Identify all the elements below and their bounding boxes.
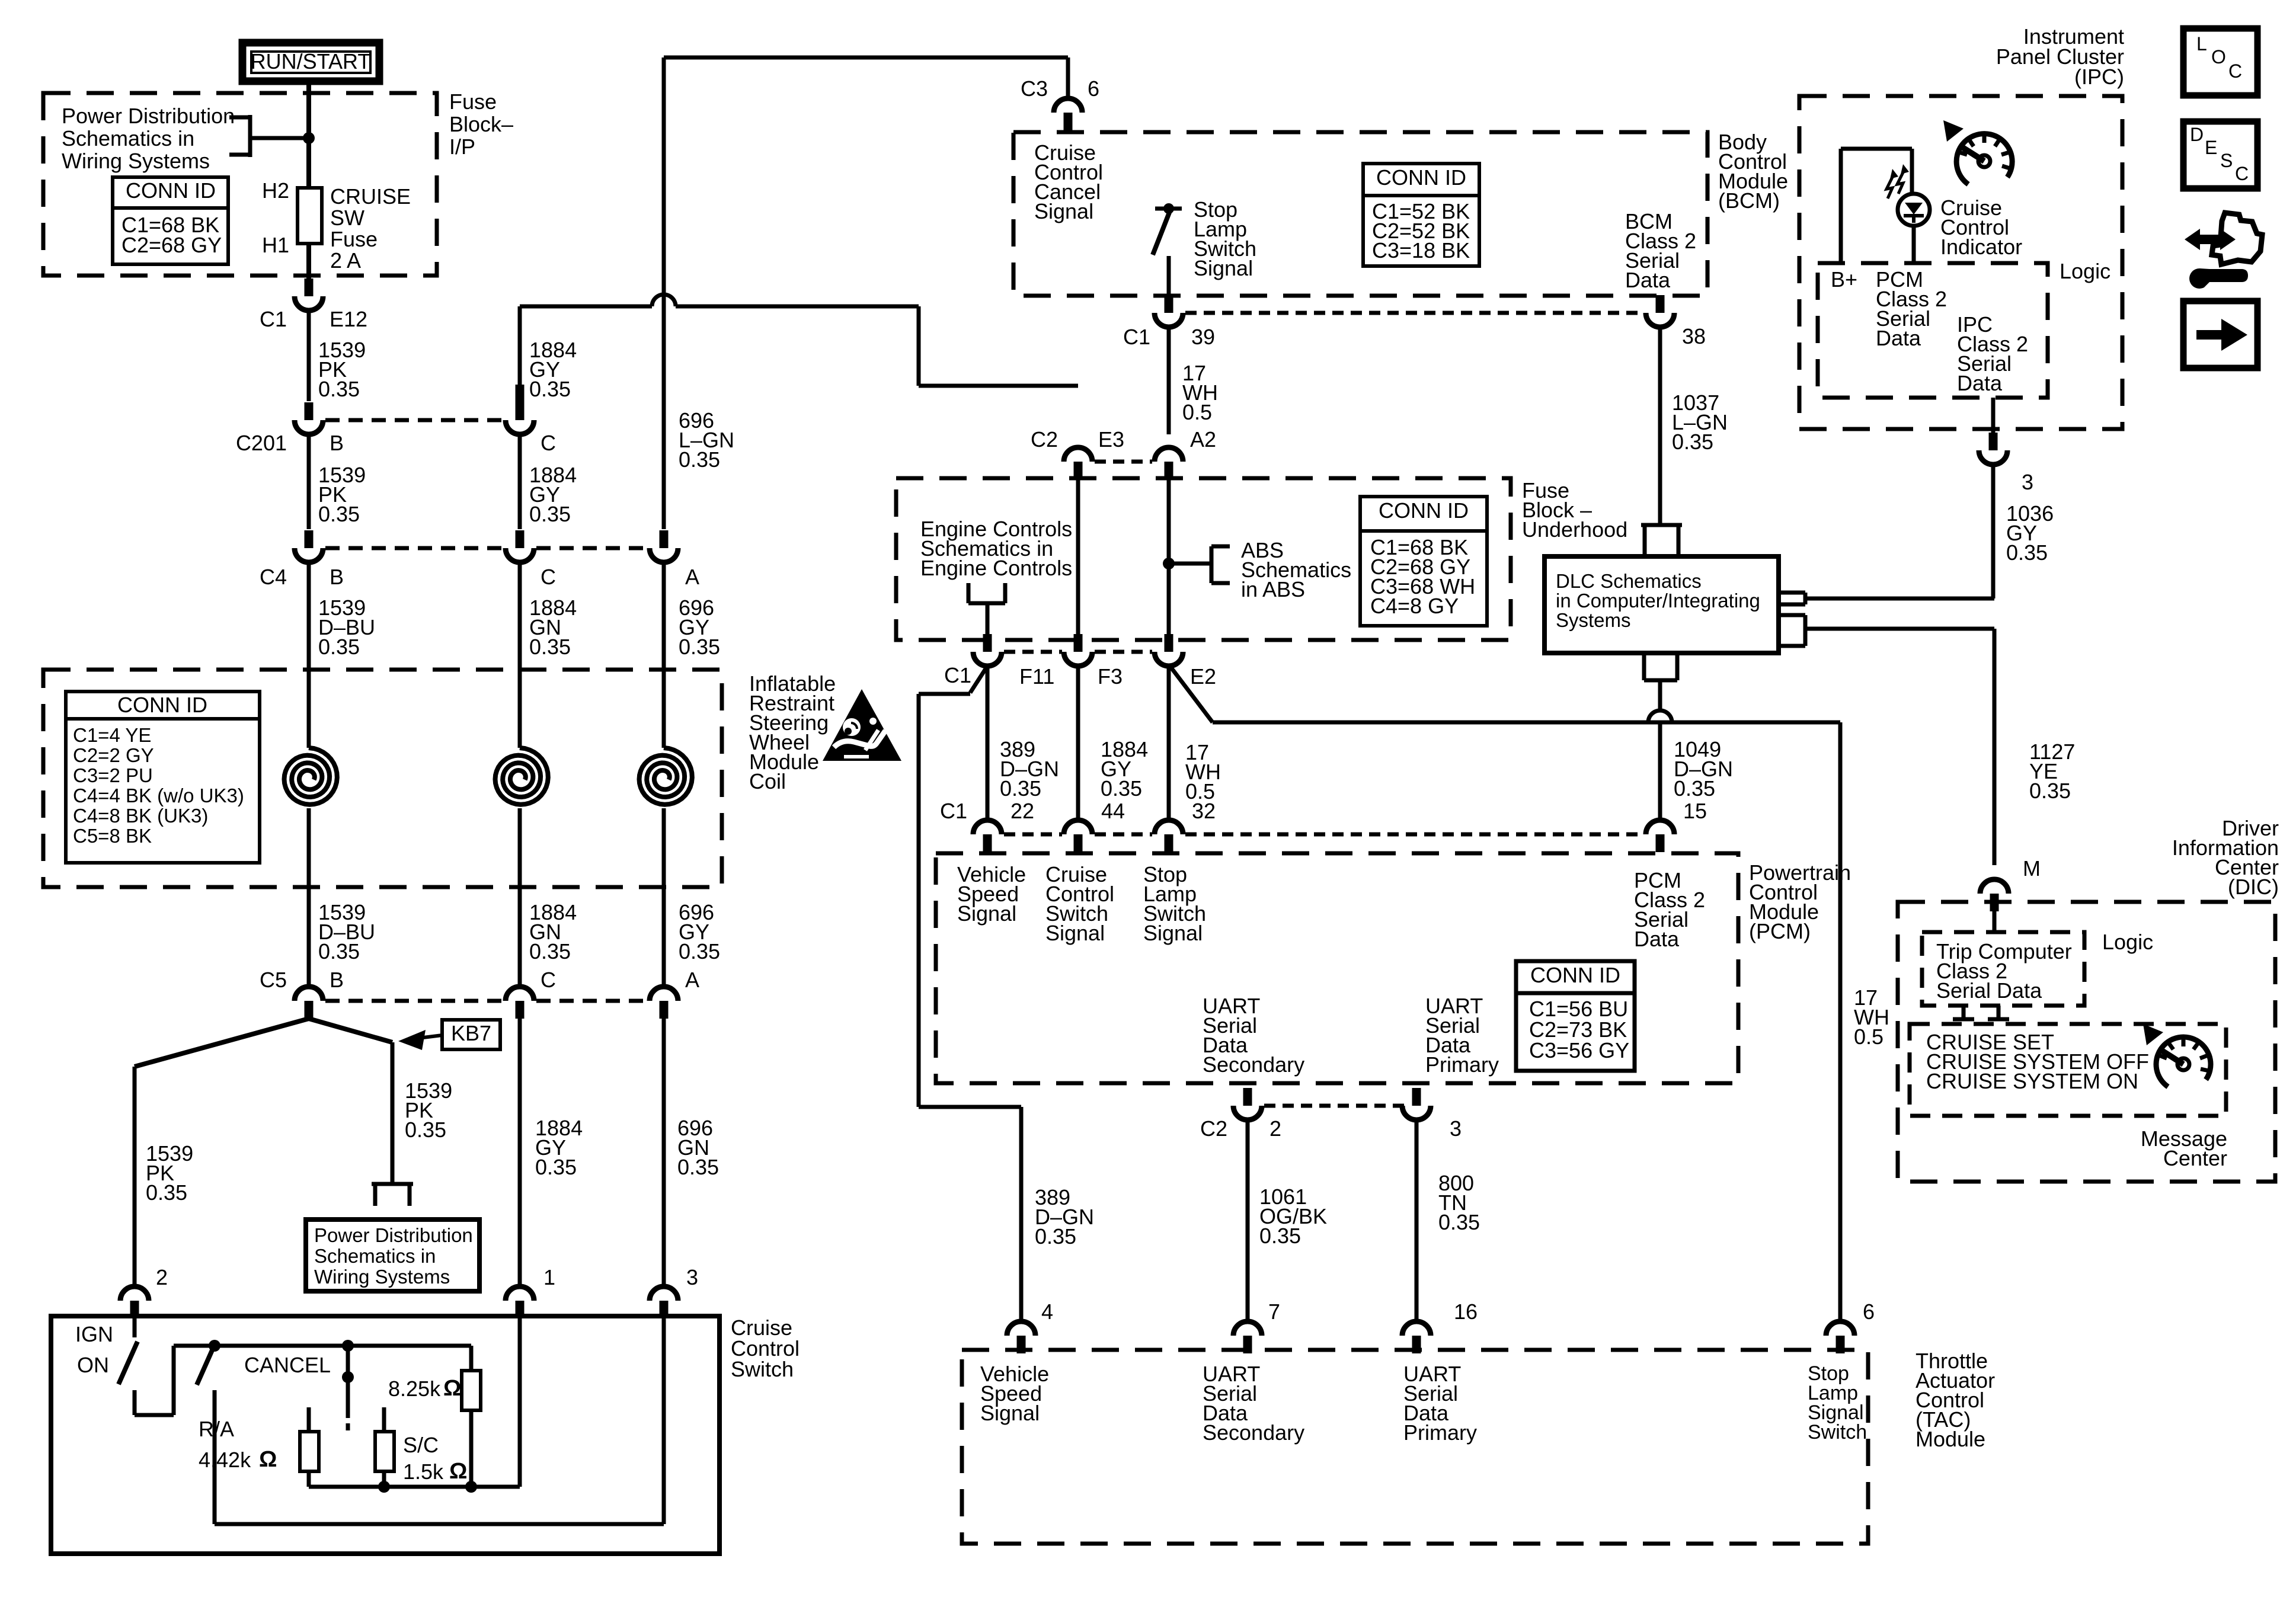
resistor 8.25k [462, 1346, 481, 1487]
wire 1884 GY C201-C to C4-C [518, 434, 522, 529]
label UART Serial Data Primary (PCM) [1425, 994, 1499, 1077]
KB7 splice callout [398, 1020, 500, 1050]
svg-text:32: 32 [1192, 799, 1216, 823]
label 800 TN 0.35 [1438, 1171, 1480, 1234]
svg-text:0.35: 0.35 [677, 1155, 719, 1179]
svg-text:2: 2 [156, 1265, 168, 1289]
svg-text:IGN: IGN [75, 1322, 113, 1346]
wire 17 WH E2 to 32 [1167, 666, 1171, 820]
svg-text:22: 22 [1011, 799, 1034, 823]
svg-text:0.35: 0.35 [679, 447, 720, 472]
svg-text:C3=56 GY: C3=56 GY [1529, 1038, 1629, 1062]
resistor R/A 4.42k [300, 1407, 319, 1487]
connector F3 [1064, 634, 1092, 666]
svg-text:CRUISE: CRUISE [330, 184, 411, 209]
power source RUN/START [242, 43, 379, 81]
wire B+ feed to LED [1841, 149, 1912, 263]
svg-text:H2: H2 [262, 178, 289, 203]
label 1884 GY 0.35 (mid) [1101, 737, 1148, 801]
label 1127 YE 0.35 [2029, 740, 2075, 803]
svg-text:4.42k: 4.42k [199, 1448, 251, 1472]
svg-text:15: 15 [1683, 799, 1707, 823]
bracket ABS [1211, 546, 1230, 583]
connector row C5 dashed [325, 999, 647, 1003]
rail top resistors [215, 1344, 471, 1348]
label PCM Class 2 Serial Data (IPC) [1876, 267, 1947, 350]
svg-text:0.35: 0.35 [2006, 540, 2048, 565]
svg-text:Center: Center [2163, 1146, 2227, 1170]
svg-text:0.35: 0.35 [1674, 776, 1715, 801]
bus taps trip computer [1953, 1006, 2009, 1019]
svg-text:CONN ID: CONN ID [1376, 165, 1466, 190]
node set/coast branch [342, 1340, 354, 1352]
svg-text:C2: C2 [1031, 427, 1058, 452]
label Stop Lamp Signal Switch (TAC) [1808, 1362, 1867, 1443]
label 389 D-GN 0.35 [1000, 737, 1059, 801]
svg-text:I/P: I/P [449, 135, 475, 159]
wire 696 GY coil to C5 [662, 808, 666, 986]
wire split below C5 left diagonal [135, 1019, 309, 1067]
connector C1 pin E12 [295, 279, 323, 311]
label BCM Class 2 Serial Data [1625, 209, 1696, 292]
svg-text:0.35: 0.35 [1672, 430, 1713, 454]
svg-text:Signal: Signal [1045, 921, 1105, 945]
svg-text:Ω: Ω [443, 1376, 461, 1401]
connector C5 pin B [295, 987, 323, 1019]
CONN ID table (coil) [66, 692, 260, 863]
svg-text:C5: C5 [260, 968, 287, 992]
label CRUISE SW Fuse 2A [330, 184, 411, 273]
svg-text:E3: E3 [1098, 427, 1124, 452]
CONN ID table (PCM) [1516, 961, 1635, 1071]
Cruise Control Switch box [51, 1316, 720, 1554]
wire IGN switch to cancel rail [135, 1346, 215, 1415]
wire 1036 GY [1991, 465, 1996, 598]
wire F11 diagonal to vehicle speed run [919, 666, 987, 1107]
label S/C 1.5k ohm [403, 1433, 467, 1484]
svg-text:Indicator: Indicator [1940, 235, 2022, 259]
svg-text:0.5: 0.5 [1854, 1025, 1884, 1049]
icon engine service [2185, 213, 2262, 289]
wire ABS tap [1169, 562, 1211, 566]
switch set/coast contact [342, 1346, 354, 1430]
Fuse Block I/P dashed box [43, 93, 437, 276]
svg-text:Logic: Logic [2060, 259, 2110, 283]
svg-text:KB7: KB7 [451, 1021, 491, 1045]
connector pin 4 TAC [1007, 1321, 1035, 1353]
wire fuse to connector C1 [306, 244, 311, 279]
connector row dotted 39 to 38 [1185, 311, 1643, 315]
connector pin 16 TAC [1402, 1321, 1431, 1353]
connector pin 32 [1155, 820, 1183, 852]
svg-text:C201: C201 [236, 431, 287, 455]
svg-text:Wiring Systems: Wiring Systems [62, 149, 210, 173]
svg-text:C1: C1 [944, 663, 971, 687]
wire E2 diagonal to stop lamp run [1170, 666, 1840, 722]
switch CANCEL blade [197, 1342, 216, 1385]
connector row dotted E3-A2 [1095, 460, 1152, 464]
svg-text:CONN ID: CONN ID [117, 693, 207, 717]
svg-text:3: 3 [2022, 470, 2033, 494]
svg-text:Underhood: Underhood [1522, 517, 1627, 542]
svg-text:Module: Module [1916, 1427, 1985, 1451]
node ABS tap [1163, 558, 1175, 569]
label 389 D-GN 0.35 (bottom) [1035, 1185, 1094, 1249]
connector pin 7 TAC [1233, 1321, 1262, 1353]
svg-text:Logic: Logic [2102, 930, 2153, 954]
svg-text:0.35: 0.35 [318, 377, 360, 401]
label 696 GY 0.35 (2) [679, 900, 720, 964]
node cancel branch [209, 1340, 220, 1352]
svg-text:Serial Data: Serial Data [1936, 978, 2042, 1003]
label 8.25k ohm [388, 1376, 461, 1401]
svg-text:6: 6 [1088, 76, 1099, 101]
Inflatable Restraint Steering Wheel Module Coil dashed box [43, 670, 722, 887]
wire 1539 PK 0.35 C1 to C201 [307, 311, 311, 401]
svg-text:7: 7 [1268, 1299, 1280, 1324]
label Stop Lamp Switch Signal [1194, 197, 1256, 280]
svg-text:Fuse: Fuse [330, 227, 378, 251]
bracket engine controls [968, 583, 1005, 640]
svg-text:A: A [685, 968, 699, 992]
svg-text:S/C: S/C [403, 1433, 439, 1457]
connector 3 IPC [1979, 433, 2007, 465]
label 1036 GY 0.35 [2006, 501, 2054, 565]
svg-text:CONN ID: CONN ID [126, 178, 216, 203]
svg-text:Schematics in: Schematics in [62, 126, 194, 151]
svg-text:C3: C3 [1021, 76, 1048, 101]
hop of GY wire over L-GN wire [520, 295, 1078, 386]
label Stop Lamp Switch Signal (PCM) [1143, 862, 1206, 945]
label 1884 GY 0.35 (to pin1) [535, 1116, 583, 1179]
label 696 GY 0.35 [679, 596, 720, 659]
wire vehicle speed jog to pin 4 [919, 1107, 1021, 1323]
coil L3 (SIR coil A) [639, 748, 692, 805]
label 1049 D-GN 0.35 [1674, 737, 1733, 801]
label Cruise Control Indicator [1940, 196, 2022, 259]
wire 1049 D-GN DLC to PCM 15 [1648, 680, 1672, 820]
icon arrow [2183, 301, 2257, 368]
svg-text:C2=2 GY: C2=2 GY [73, 744, 154, 766]
connector C3 pin 6 [1054, 98, 1082, 130]
wire E3 to F3 [1076, 479, 1080, 640]
bracket 1037 to DLC box [1641, 525, 1682, 555]
svg-text:Secondary: Secondary [1203, 1052, 1304, 1077]
svg-text:Engine Controls: Engine Controls [920, 556, 1072, 580]
svg-text:B: B [330, 968, 344, 992]
svg-text:1: 1 [543, 1265, 555, 1289]
connector E2 [1155, 634, 1183, 666]
off-page bracket to power distribution [372, 1184, 413, 1206]
svg-text:C: C [2228, 60, 2242, 82]
label Inflatable Restraint Steering Wheel Module Coil [749, 671, 836, 793]
svg-text:Ω: Ω [449, 1459, 467, 1484]
wire 1037 L-GN BCM to DLC [1658, 327, 1662, 525]
svg-text:8.25k: 8.25k [388, 1377, 441, 1401]
connector C201 pin C [506, 402, 534, 434]
switch stop lamp (in BCM) [1153, 203, 1182, 302]
svg-text:E2: E2 [1190, 664, 1216, 689]
svg-text:B: B [330, 565, 344, 589]
svg-text:S: S [2220, 150, 2233, 171]
label Fuse Block-I/P [449, 89, 513, 159]
svg-text:Signal: Signal [1034, 199, 1093, 223]
svg-text:C4=4 BK (w/o UK3): C4=4 BK (w/o UK3) [73, 785, 244, 806]
svg-text:Data: Data [1625, 268, 1671, 292]
wire 1036 GY horizontal to DLC [1805, 597, 1994, 601]
connector row dotted 22-44 [1004, 833, 1062, 837]
connector row C201 dashed [325, 418, 503, 422]
svg-text:F3: F3 [1098, 664, 1123, 689]
svg-text:Data: Data [1634, 927, 1680, 951]
svg-text:(BCM): (BCM) [1718, 188, 1780, 213]
svg-text:B: B [330, 431, 344, 455]
warning triangle SIR [823, 689, 901, 761]
wire 17 WH to TAC pin 6 [1838, 722, 1843, 1321]
svg-text:C3=18 BK: C3=18 BK [1372, 238, 1470, 263]
svg-text:E12: E12 [330, 307, 367, 331]
svg-text:A2: A2 [1190, 427, 1216, 452]
label UART Serial Data Secondary (PCM) [1203, 994, 1304, 1077]
label 696 GN 0.35 (to pin3) [677, 1116, 719, 1179]
label 1884 GN 0.35 [529, 596, 577, 659]
label 1884 GY 0.35 [529, 338, 577, 401]
icon DESC [2183, 121, 2257, 188]
connector F11 (C1) [973, 634, 1002, 666]
svg-text:0.35: 0.35 [405, 1118, 446, 1142]
svg-text:A: A [685, 565, 699, 589]
svg-text:Switch: Switch [731, 1357, 794, 1381]
svg-text:B+: B+ [1831, 267, 1857, 292]
wire 1884 GY 0.35 to C201-C [518, 306, 522, 402]
svg-text:(IPC): (IPC) [2074, 65, 2124, 89]
connector pin 1 cruise switch [506, 1286, 534, 1318]
label Cruise Control Switch Signal (PCM) [1045, 862, 1114, 945]
label 1037 L-GN 0.35 [1672, 391, 1728, 454]
DIC dashed box [1898, 902, 2275, 1182]
svg-text:0.35: 0.35 [529, 502, 571, 526]
PCM dashed box [936, 853, 1738, 1083]
wire 1539 D-BU to coil [307, 562, 311, 748]
svg-text:Fuse: Fuse [449, 89, 497, 114]
svg-text:SW: SW [330, 206, 364, 230]
svg-text:C4=8 GY: C4=8 GY [1370, 594, 1459, 618]
label UART Serial Data Primary (TAC) [1403, 1362, 1477, 1445]
svg-text:C: C [541, 968, 556, 992]
svg-text:L: L [2196, 33, 2207, 55]
svg-text:M: M [2023, 856, 2041, 881]
label 1539 D-BU 0.35 [318, 596, 375, 659]
wire 17 WH 0.5 39 to A2 [1167, 327, 1171, 434]
label 1539 PK 0.35 (to pin2) [146, 1141, 193, 1205]
svg-text:0.35: 0.35 [146, 1180, 187, 1205]
svg-text:CONN ID: CONN ID [1530, 963, 1620, 987]
switch IGN ON blade [119, 1316, 137, 1384]
label 17 WH 0.5 (right) [1854, 985, 1889, 1049]
svg-text:Schematics in: Schematics in [314, 1245, 436, 1267]
wire 389 D-GN F11 to 22 [986, 666, 990, 820]
connector C1 pin 39 [1155, 295, 1183, 327]
svg-text:38: 38 [1682, 324, 1706, 348]
connector C5 pin C [506, 987, 534, 1019]
svg-text:ON: ON [77, 1353, 109, 1377]
label Vehicle Speed Signal (TAC) [980, 1362, 1049, 1425]
LED cruise control indicator [1886, 164, 1930, 226]
fuse CRUISE SW Fuse 2A [298, 188, 322, 244]
svg-text:Secondary: Secondary [1203, 1420, 1304, 1445]
connector E3 (C2) [1064, 447, 1092, 479]
wire 1539 PK to switch pin 2 [133, 1067, 137, 1288]
svg-text:0.35: 0.35 [529, 377, 571, 401]
svg-text:F11: F11 [1019, 664, 1054, 689]
wire A2 to E2 [1167, 479, 1171, 640]
svg-text:0.35: 0.35 [318, 939, 360, 964]
label Power Distribution Schematics in Wiring Systems (top) [62, 104, 235, 173]
label IGN ON [75, 1322, 113, 1377]
wire 1884 GY F3 to 44 [1076, 666, 1080, 820]
connector C4 pin A [650, 530, 678, 562]
connector row dotted F11-F3 [1004, 650, 1062, 654]
connector row dotted F3-E2 [1095, 650, 1152, 654]
bottom rail of switch resistors [309, 1316, 520, 1493]
bracket DLC right upper [1779, 593, 1805, 604]
svg-text:Switch: Switch [1808, 1421, 1867, 1443]
svg-text:C3=2 PU: C3=2 PU [73, 764, 153, 786]
svg-text:H1: H1 [262, 233, 289, 257]
svg-text:D: D [2190, 124, 2204, 145]
svg-text:6: 6 [1863, 1299, 1875, 1324]
CRUISE SET message box [1910, 1024, 2226, 1116]
wire 1539 PK 0.35 C201 to C4 [307, 434, 311, 529]
svg-text:C5=8 BK: C5=8 BK [73, 825, 152, 847]
svg-text:C: C [541, 565, 556, 589]
connector row C4 dashed [325, 546, 647, 550]
label 696 L-GN 0.35 [679, 408, 734, 472]
label Driver Information Center DIC [2172, 816, 2279, 899]
svg-text:0.35: 0.35 [2029, 779, 2071, 803]
wire 1884 GY to switch pin 1 [518, 1016, 522, 1288]
svg-text:0.35: 0.35 [679, 635, 720, 659]
label R/A 4.42k ohm [199, 1417, 277, 1472]
label 17 WH 0.5 [1182, 361, 1218, 424]
wire logic to connector 3 [1991, 398, 1996, 436]
label Cruise Control Cancel Signal [1034, 140, 1103, 223]
label 1539 PK 0.35 (2) [318, 463, 366, 526]
connector C4 pin C [506, 530, 534, 562]
icon LOC [2183, 28, 2257, 95]
svg-text:39: 39 [1191, 325, 1215, 349]
label 1539 PK 0.35 [318, 338, 366, 401]
svg-text:0.35: 0.35 [1259, 1224, 1301, 1248]
DLC Schematics box [1544, 556, 1779, 653]
svg-text:C1: C1 [940, 799, 967, 823]
label 1061 OG/BK 0.35 [1259, 1185, 1327, 1248]
label Engine Controls Schematics in Engine Controls [920, 517, 1072, 580]
resistor S/C 1.5k [375, 1407, 394, 1487]
svg-text:C1: C1 [1123, 325, 1150, 349]
label 1539 D-BU 0.35 (2) [318, 900, 375, 964]
connector C2 pin 2 [1233, 1088, 1262, 1120]
label IPC Class 2 Serial Data [1957, 312, 2028, 395]
Trip Computer dashed box [1922, 932, 2084, 1006]
connector row dotted 2-3 [1264, 1104, 1405, 1108]
Power Distribution Schematics in Wiring Systems box (bottom) [306, 1219, 479, 1291]
wire 1539 D-BU coil to C5 [307, 808, 311, 986]
CONN ID table (underhood) [1360, 497, 1487, 626]
label Powertrain Control Module PCM [1749, 860, 1851, 943]
svg-text:Signal: Signal [957, 901, 1016, 926]
svg-text:R/A: R/A [199, 1417, 234, 1441]
label Vehicle Speed Signal (PCM) [957, 862, 1026, 926]
bracket DLC right lower [1779, 615, 1805, 646]
label Fuse Block Underhood [1522, 478, 1627, 542]
label 1539 PK 0.35 (to power dist) [405, 1078, 452, 1142]
label Instrument Panel Cluster IPC [1996, 24, 2124, 89]
svg-text:0.35: 0.35 [679, 939, 720, 964]
wire split below C5 right diagonal [309, 1019, 392, 1042]
svg-text:0.35: 0.35 [1035, 1224, 1076, 1249]
connector M [1980, 879, 2009, 911]
svg-text:Primary: Primary [1425, 1052, 1499, 1077]
wire 696 L-GN vertical [662, 57, 666, 529]
svg-text:3: 3 [686, 1265, 698, 1289]
wire 696 GY to coil [662, 562, 666, 748]
bracket to power distribution [229, 115, 309, 157]
label UART Serial Data Secondary (TAC) [1203, 1362, 1304, 1445]
svg-text:C4: C4 [260, 565, 287, 589]
label PCM Class 2 Serial Data [1634, 868, 1705, 951]
svg-text:Signal: Signal [1194, 256, 1253, 280]
label 1884 GY 0.35 (2) [529, 463, 577, 526]
wire LED to logic [1912, 226, 1916, 263]
bracket DLC bottom [1644, 653, 1677, 680]
connector row dotted 44-32 [1095, 833, 1152, 837]
svg-text:C: C [2235, 163, 2249, 184]
label 17 WH 0.5 (mid) [1185, 740, 1221, 804]
svg-text:Power Distribution: Power Distribution [314, 1224, 473, 1246]
wire RUN/START to fuse [306, 81, 311, 188]
label 1884 GN 0.35 (2) [529, 900, 577, 964]
svg-text:0.35: 0.35 [1438, 1210, 1480, 1234]
svg-text:(PCM): (PCM) [1749, 919, 1811, 943]
svg-text:C2=68 GY: C2=68 GY [121, 233, 222, 257]
Fuse Block Underhood dashed box [896, 478, 1511, 640]
svg-text:0.35: 0.35 [529, 635, 571, 659]
IPC dashed box [1799, 96, 2122, 429]
BCM dashed box [1013, 132, 1707, 296]
gauge icon IPC [1943, 120, 2012, 184]
coil L1 (SIR coil B) [284, 748, 337, 805]
svg-text:RUN/START: RUN/START [251, 49, 371, 73]
svg-text:CRUISE SYSTEM ON: CRUISE SYSTEM ON [1926, 1069, 2138, 1093]
svg-text:CONN ID: CONN ID [1379, 498, 1469, 523]
wire 696 L-GN top horizontal to cruise cancel [664, 56, 1068, 60]
svg-text:0.35: 0.35 [318, 502, 360, 526]
svg-text:0.35: 0.35 [529, 939, 571, 964]
connector C201 pin B [295, 402, 323, 434]
svg-text:in ABS: in ABS [1241, 577, 1305, 601]
connector A2 [1155, 447, 1183, 479]
CONN ID table (fuse block I/P) [113, 177, 228, 264]
TAC module dashed box [962, 1350, 1868, 1544]
label Body Control Module BCM [1718, 130, 1788, 213]
svg-text:DLC Schematics: DLC Schematics [1556, 570, 1702, 592]
wire cruise cancel drop [1066, 57, 1070, 98]
wire M to trip computer [1993, 911, 1997, 932]
connector pin 3 (PCM) [1402, 1088, 1431, 1120]
wire 1061 OG/BK [1246, 1120, 1250, 1323]
wire 1127 YE [1993, 629, 1997, 865]
